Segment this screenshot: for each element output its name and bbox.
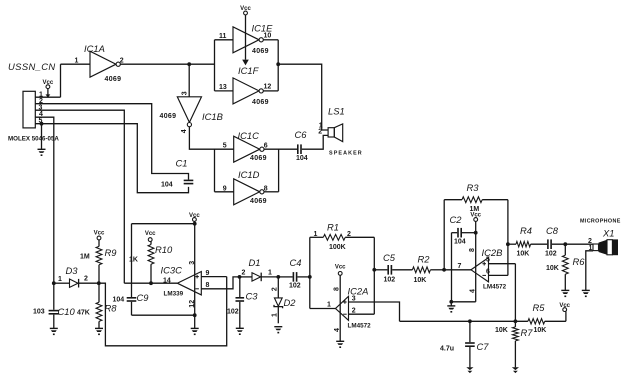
IC1E label [252, 23, 274, 34]
svg-text:13: 13 [219, 84, 227, 91]
wire IC3C pin8 to D1 node [201, 277, 239, 289]
junction R6 node [563, 242, 567, 246]
wire pin4 to D3 anode [35, 117, 54, 283]
svg-text:4: 4 [181, 129, 188, 133]
svg-text:C2: C2 [450, 214, 463, 225]
R7 label [521, 327, 534, 338]
IC1D label [238, 169, 260, 180]
svg-text:R5: R5 [533, 302, 546, 313]
C4 label [290, 257, 302, 268]
IC1E pin 10 label [264, 32, 272, 39]
svg-text:2: 2 [352, 308, 356, 315]
wire IC1B input from IC1A output [188, 64, 190, 97]
svg-text:4069: 4069 [160, 113, 177, 120]
wire IC1D output [264, 149, 279, 192]
wire node to C5 [374, 269, 387, 271]
zener diode D2 [274, 277, 283, 323]
junction C2/Vcc node [474, 231, 478, 235]
svg-text:IC3C: IC3C [161, 264, 183, 275]
D1 pin 2 label [242, 270, 246, 277]
C3 label [246, 291, 259, 302]
inverter IC1A [90, 51, 120, 77]
svg-text:1: 1 [314, 231, 318, 238]
wire pin2 to C1 top [35, 104, 188, 180]
connector pin 2 label [39, 98, 43, 105]
svg-text:IC1A: IC1A [84, 43, 105, 54]
svg-text:R10: R10 [155, 244, 173, 255]
IC2A value LM4572 [348, 323, 372, 330]
svg-text:D2: D2 [284, 297, 297, 308]
wire IC2B pin5 to bias rail [489, 264, 516, 322]
svg-text:10K: 10K [534, 327, 547, 334]
wire IC3C power vertical pin3 to pin12 [194, 224, 196, 316]
svg-text:10K: 10K [546, 265, 559, 272]
svg-text:R1: R1 [327, 221, 339, 232]
svg-text:1: 1 [58, 276, 62, 283]
junction on pin5 [40, 122, 44, 126]
svg-text:Vcc: Vcc [94, 230, 105, 236]
svg-text:1: 1 [75, 58, 79, 65]
inverter IC1B [177, 97, 201, 127]
C6 label [295, 129, 308, 140]
svg-text:LM4572: LM4572 [348, 323, 372, 330]
svg-text:2: 2 [347, 231, 351, 238]
connector pin 3 label [39, 104, 43, 111]
power Vcc at R9 [94, 230, 105, 240]
wire IC2B power vertical pin8 to pin4 [451, 221, 475, 301]
wire pin3 to IC3C output node [35, 110, 124, 283]
svg-text:6: 6 [486, 269, 490, 276]
connector pin 1 label [39, 91, 43, 98]
wire C2 left branch [452, 233, 458, 302]
IC3C pin 9 label [206, 270, 210, 277]
C3 value 102 [227, 309, 239, 316]
resistor R7 [513, 321, 519, 367]
wire IC3C output [124, 282, 177, 284]
svg-text:1: 1 [327, 302, 331, 309]
wire C9 branch upper [131, 224, 133, 297]
resistor R2 [392, 267, 444, 273]
svg-text:102: 102 [545, 250, 557, 257]
svg-text:MICROPHONE: MICROPHONE [580, 219, 621, 225]
IC1E pin 11 label [219, 33, 227, 40]
svg-text:IC2A: IC2A [348, 285, 369, 296]
IC1D pin 9 label [223, 185, 227, 192]
svg-text:R9: R9 [105, 247, 118, 258]
IC1F pin 13 label [219, 84, 227, 91]
ground at IC2B/C2 [447, 306, 455, 313]
wire X1 pin1 to ground [586, 251, 593, 291]
capacitor C5 [387, 265, 392, 275]
svg-text:14: 14 [163, 278, 171, 285]
D2 pin 1 label [272, 313, 279, 317]
svg-text:3: 3 [182, 91, 189, 95]
wire C6 to speaker pin 2 [302, 135, 328, 149]
R1 label [327, 221, 339, 232]
svg-text:9: 9 [223, 185, 227, 192]
svg-text:1K: 1K [129, 257, 138, 264]
wire IC1D input stub [215, 191, 234, 193]
svg-text:R8: R8 [105, 303, 118, 314]
junction IC3C ground node [193, 313, 197, 317]
speaker LS1 body [328, 124, 343, 142]
IC2B pin 5 label [486, 257, 490, 264]
IC1A label [84, 43, 105, 54]
svg-text:IC1B: IC1B [202, 111, 223, 122]
IC3C pin 8 label [206, 282, 210, 289]
svg-text:4: 4 [469, 289, 476, 293]
capacitor C7 wire [469, 321, 471, 342]
svg-text:R6: R6 [573, 256, 586, 267]
R8 value 47K [77, 309, 90, 316]
C5 label [383, 252, 396, 263]
junction IC1B input tap [187, 62, 191, 66]
inverter IC1E [233, 27, 263, 53]
svg-text:12: 12 [264, 83, 272, 90]
ground at IC3C [191, 328, 199, 335]
R10 label [155, 244, 173, 255]
ground at R6 [561, 290, 569, 297]
R9 label [105, 247, 118, 258]
C1 label [176, 158, 188, 169]
svg-text:2: 2 [588, 238, 592, 245]
capacitor C4 [293, 272, 298, 282]
wire IC1A input [61, 63, 91, 65]
IC2B pin 8 label [469, 248, 476, 252]
svg-text:2: 2 [120, 58, 124, 65]
wire node vertical [309, 237, 311, 308]
IC2B pin 6 label [486, 269, 490, 276]
junction IC2B ground node [449, 300, 453, 304]
IC3C label [161, 264, 183, 275]
IC1A pin 2 label [120, 58, 124, 65]
junction Vcc IC3C rail [193, 222, 197, 226]
svg-text:D1: D1 [249, 257, 261, 268]
wire to speaker pin 1 [278, 64, 328, 130]
resistor R6 [562, 244, 568, 290]
wire IC3C pin12 to ground [194, 315, 196, 328]
svg-text:4.7u: 4.7u [440, 345, 454, 352]
svg-text:R2: R2 [418, 254, 431, 265]
junction C5/R1/pin2 node [372, 268, 376, 272]
resistor R8 [96, 283, 102, 328]
R2 label [418, 254, 431, 265]
svg-text:IC2B: IC2B [482, 247, 503, 258]
resistor R5 [528, 312, 566, 325]
svg-text:10K: 10K [414, 277, 427, 284]
IC3C pin 3 label [189, 261, 196, 265]
resistor R10 [148, 242, 154, 284]
connector pin 4 label [39, 111, 43, 118]
D2 label [284, 297, 297, 308]
D3 label [66, 265, 79, 276]
C6 value 104 [296, 155, 308, 162]
D2 pin 2 label [272, 287, 279, 291]
junction C4/R1/IC2A-output node [308, 275, 312, 279]
IC2B value LM4572 [483, 283, 507, 290]
D3 pin 1 label [58, 276, 62, 283]
power Vcc at IC3C [189, 213, 200, 221]
D1 label [249, 257, 261, 268]
wire IC3C top rail [132, 223, 195, 225]
junction D1 cathode node [276, 275, 280, 279]
wire bias rail [400, 320, 528, 322]
IC1C pin 5 label [223, 142, 227, 149]
LS1 SPEAKER label [329, 150, 363, 156]
wire pin1 to IC1A input [35, 64, 60, 97]
svg-text:1: 1 [268, 270, 272, 277]
svg-text:IC1D: IC1D [238, 169, 260, 180]
connector USSN_CN body MOLEX 5046-05A [23, 91, 35, 128]
wire D3 node to IC3C minus input [99, 277, 227, 346]
svg-text:102: 102 [227, 309, 239, 316]
wire Vcc stub IC3C [193, 221, 195, 223]
wire R3 to pin6 [489, 200, 508, 276]
svg-text:6: 6 [264, 142, 268, 149]
IC1B pin 3 label [182, 91, 189, 95]
junction IC1E/IC1F outputs [276, 62, 280, 66]
IC1D value 4069 [250, 198, 267, 205]
R9 value 1M [80, 254, 90, 261]
svg-text:X1: X1 [602, 228, 614, 239]
svg-text:IC1C: IC1C [238, 130, 260, 141]
svg-text:104: 104 [161, 182, 173, 189]
wire C9 branch lower [132, 302, 195, 315]
C2 value 104 [454, 238, 466, 245]
wire C3 to ground [239, 302, 241, 329]
wire IC2A pin3 to bias rail [349, 302, 400, 321]
wire IC1A output [120, 63, 214, 65]
svg-text:4069: 4069 [105, 76, 122, 83]
svg-text:4069: 4069 [252, 99, 269, 106]
svg-text:D3: D3 [66, 265, 79, 276]
svg-text:C9: C9 [137, 292, 150, 303]
ground at C7 [466, 367, 473, 373]
IC1F pin 12 label [264, 83, 272, 90]
D3 pin 2 label [84, 276, 88, 283]
power Vcc at R5 [559, 303, 570, 311]
wire C4 to IC2A node [297, 276, 309, 278]
C10 label [58, 306, 76, 317]
junction R7 node [514, 319, 518, 323]
C8 label [546, 225, 559, 236]
junction R3/R4 node [506, 242, 510, 246]
X1 label [602, 228, 614, 239]
IC3C pin 12 label [189, 300, 196, 308]
ground at IC2A [336, 341, 344, 348]
svg-text:C5: C5 [383, 252, 396, 263]
resistor R1 [310, 234, 375, 240]
svg-text:USSN_CN: USSN_CN [8, 61, 56, 72]
wire ground stub [450, 302, 452, 306]
resistor R9 [96, 240, 102, 283]
capacitor C8 [547, 239, 552, 249]
wire IC2B output pin7 [444, 269, 471, 271]
junction D1 anode node [238, 275, 242, 279]
R2 value 10K [414, 277, 427, 284]
IC1A pin 1 label [75, 58, 79, 65]
svg-text:100K: 100K [329, 244, 346, 251]
C1 value 104 [161, 182, 173, 189]
R5 value 10K [534, 327, 547, 334]
R6 label [573, 256, 586, 267]
power Vcc at IC2B [470, 212, 481, 221]
R3 value 1M [470, 206, 480, 213]
R6 value 10K [546, 265, 559, 272]
junction C7 node [468, 319, 472, 323]
C9 value 104 [113, 296, 125, 303]
svg-text:10K: 10K [517, 250, 530, 257]
svg-text:3: 3 [189, 261, 196, 265]
D1 pin 1 label [268, 270, 272, 277]
wire C7 to ground [469, 347, 471, 367]
svg-text:2: 2 [318, 128, 322, 135]
op-amp IC3C triangle [177, 272, 201, 295]
ground at C10 [50, 328, 58, 335]
svg-text:5: 5 [486, 257, 490, 264]
svg-text:C6: C6 [295, 129, 308, 140]
ground at R7 [512, 367, 519, 373]
power Vcc at IC2A [335, 265, 346, 276]
R4 value 10K [517, 250, 530, 257]
svg-text:10: 10 [264, 32, 272, 39]
junction R10 output node [149, 281, 153, 285]
power Vcc at R10 [145, 231, 156, 242]
svg-text:1: 1 [272, 313, 279, 317]
svg-text:R4: R4 [520, 225, 532, 236]
svg-text:5: 5 [223, 142, 227, 149]
IC2A pin 3 label [352, 296, 356, 303]
capacitor C9 [127, 297, 137, 302]
ground at C3 [236, 328, 244, 335]
IC2B pin 7 label [458, 263, 462, 270]
wire IC1E input stub [215, 39, 234, 41]
X1 pin 2 label [588, 238, 592, 245]
wire IC1E output [263, 39, 278, 41]
resistor R3 [444, 197, 508, 270]
X1 pin 1 label [589, 245, 593, 252]
capacitor C1 plates [184, 180, 194, 185]
svg-text:104: 104 [454, 238, 466, 245]
capacitor C3 wire [239, 277, 241, 297]
capacitor C2 [457, 228, 462, 238]
wire IC1F input stub [215, 90, 234, 92]
microphone X1 body [593, 239, 618, 255]
svg-text:2: 2 [272, 287, 279, 291]
svg-text:104: 104 [296, 155, 308, 162]
R5 label [533, 302, 546, 313]
wire pin5 to ground [41, 124, 43, 150]
C8 value 102 [545, 250, 557, 257]
inverter IC1C [234, 136, 264, 162]
svg-text:C7: C7 [477, 341, 490, 352]
capacitor C10 [49, 310, 59, 315]
wire IC3C pin9 stub [201, 276, 226, 278]
ground at D2 [274, 327, 282, 334]
R1 pin 1 label [314, 231, 318, 238]
inverter IC1F [233, 78, 263, 104]
svg-text:9: 9 [206, 270, 210, 277]
power Vcc at connector pin 1 [43, 80, 54, 98]
svg-text:102: 102 [384, 276, 396, 283]
junction D3 anode [52, 281, 56, 285]
diode D3 [54, 279, 99, 288]
ground at R8 [95, 328, 103, 335]
svg-text:11: 11 [219, 33, 227, 40]
IC1A value 4069 [105, 76, 122, 83]
R10 value 1K [129, 257, 138, 264]
svg-text:4069: 4069 [250, 155, 267, 162]
svg-text:102: 102 [289, 283, 301, 290]
IC1E value 4069 [252, 48, 269, 55]
junction R2/R3/pin7 node [442, 268, 446, 272]
IC1B label [202, 111, 223, 122]
svg-text:C3: C3 [246, 291, 259, 302]
op-amp IC2B triangle [471, 258, 489, 282]
C7 label [477, 341, 490, 352]
capacitor C3 [236, 297, 245, 302]
wire pin5 to C1 bottom [35, 124, 188, 193]
IC1C label [238, 130, 260, 141]
svg-text:Vcc: Vcc [335, 265, 346, 271]
svg-text:R7: R7 [521, 327, 534, 338]
svg-text:SPEAKER: SPEAKER [329, 150, 363, 156]
wire D2 node to C4 [278, 276, 292, 278]
C7 value 4.7u [440, 345, 454, 352]
svg-text:C1: C1 [176, 158, 188, 169]
wire IC1C output [264, 148, 297, 150]
svg-text:1M: 1M [80, 254, 90, 261]
LS1 label [328, 106, 345, 117]
LS1 pin 2 label [318, 128, 322, 135]
svg-text:4069: 4069 [252, 48, 269, 55]
LS1 pin 1 label [319, 122, 323, 129]
svg-text:LM339: LM339 [164, 290, 184, 297]
resistor R4 [508, 242, 547, 247]
wire IC1C/IC1D input vertical [214, 149, 216, 192]
svg-text:2: 2 [84, 276, 88, 283]
C10 value 103 [33, 308, 45, 315]
svg-text:C10: C10 [58, 306, 76, 317]
R1 pin 2 label [347, 231, 351, 238]
IC1B value 4069 [160, 113, 177, 120]
capacitor C6 [297, 144, 302, 154]
IC2A label [348, 285, 369, 296]
svg-text:MOLEX 5046-05A: MOLEX 5046-05A [8, 136, 59, 143]
svg-text:8: 8 [333, 287, 340, 291]
capacitor C7 [465, 342, 475, 347]
svg-text:8: 8 [469, 248, 476, 252]
diode D1 [240, 273, 279, 282]
wire C2 to Vcc line [462, 232, 476, 234]
wire IC1F output [263, 90, 278, 92]
C9 label [137, 292, 150, 303]
C4 value 102 [289, 283, 301, 290]
wire IC1B output to IC1C input [189, 127, 233, 149]
inverter IC1D [234, 179, 264, 205]
svg-text:2: 2 [242, 270, 246, 277]
power Vcc at IC1E [240, 6, 251, 66]
IC1B pin 4 label [181, 129, 188, 133]
IC2B label [482, 247, 503, 258]
C2 label [450, 214, 463, 225]
svg-text:47K: 47K [77, 309, 90, 316]
wire D3 anode to C10 [53, 283, 55, 310]
svg-text:7: 7 [458, 263, 462, 270]
X1 MICROPHONE label [580, 219, 621, 225]
ground at connector pin 5 [38, 149, 46, 156]
R1 value 100K [329, 244, 346, 251]
